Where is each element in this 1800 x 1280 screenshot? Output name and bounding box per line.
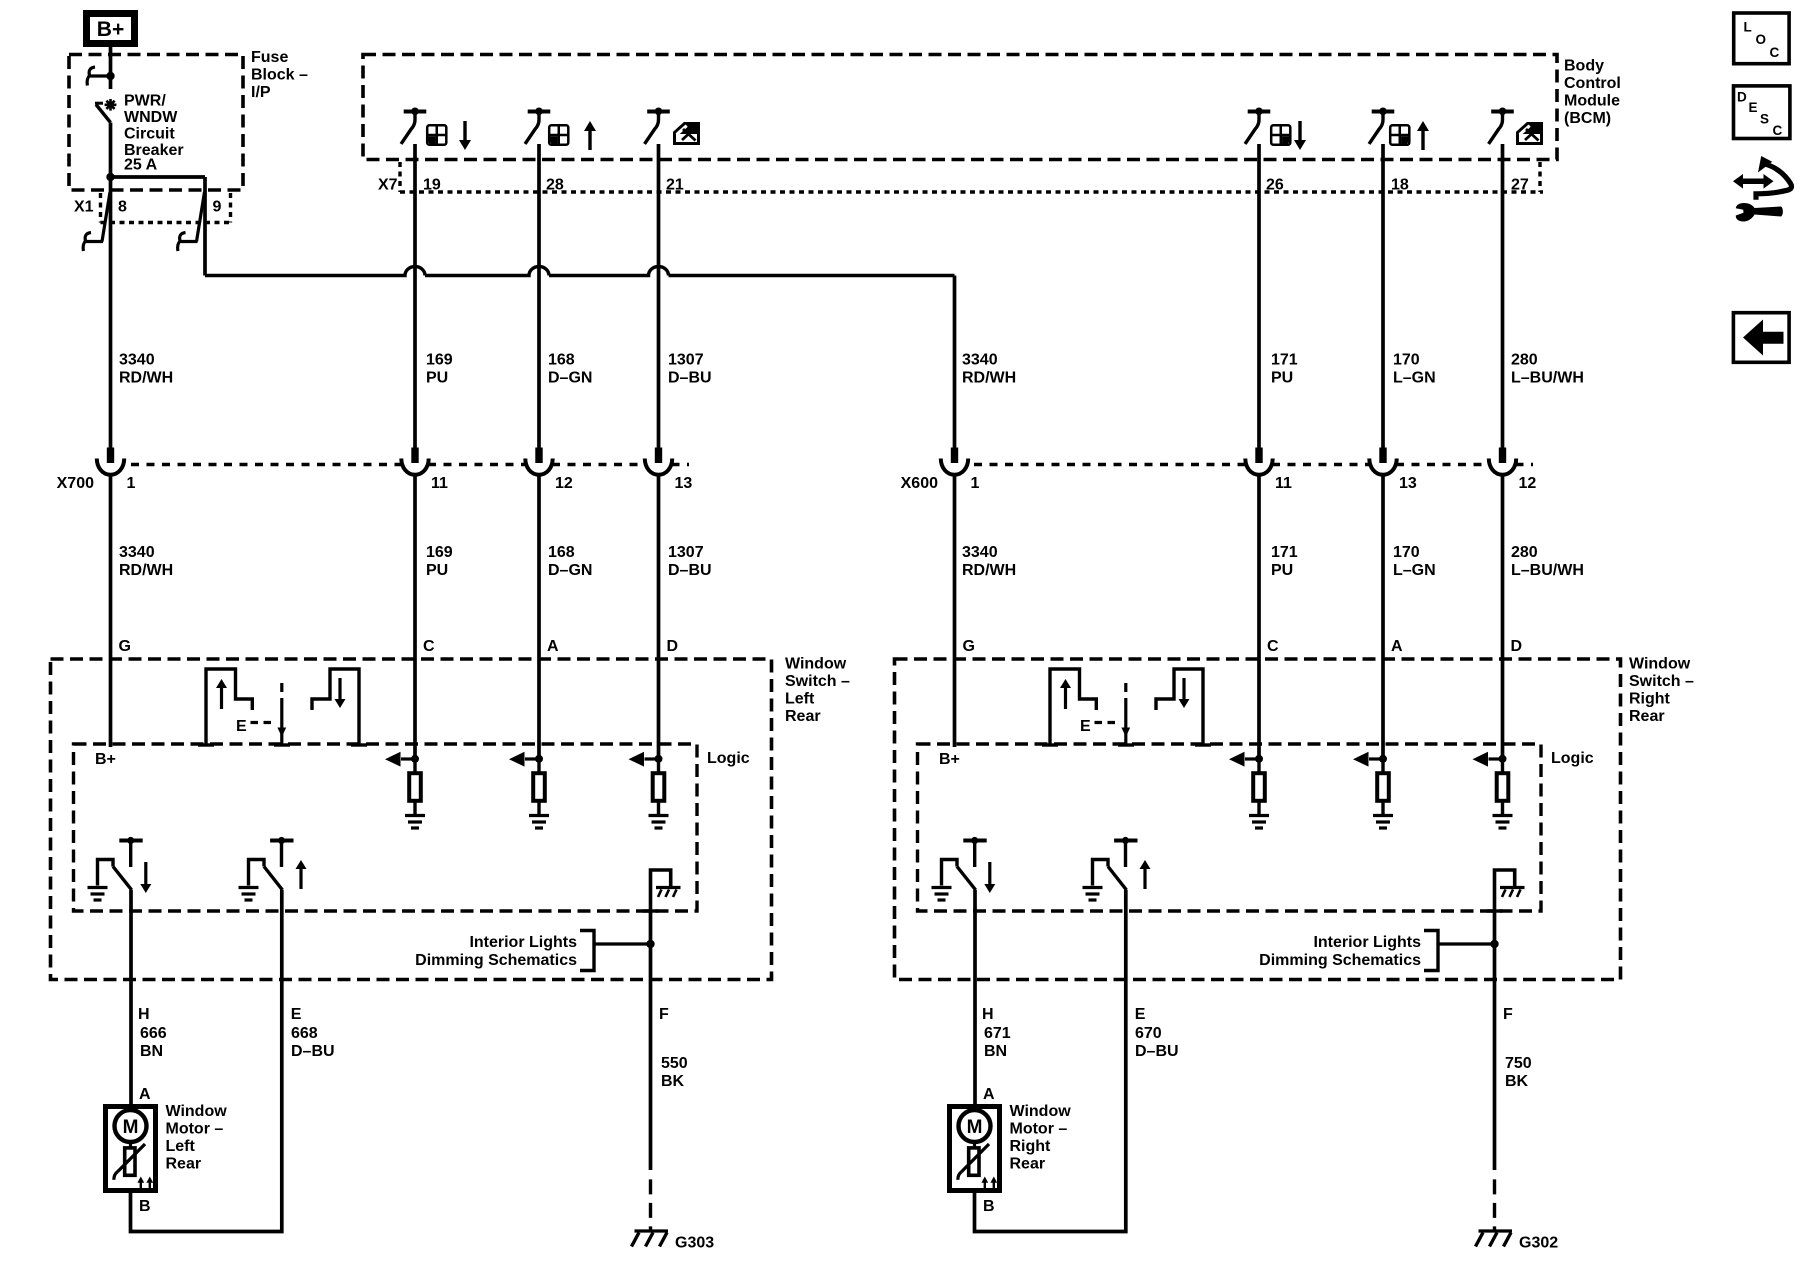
label terminal B bbox=[139, 1198, 151, 1215]
svg-text:BN: BN bbox=[140, 1043, 163, 1060]
wire BCM pin 26 bbox=[1257, 144, 1261, 448]
wire label 170 L–GN upper bbox=[1393, 352, 1436, 387]
power feed B+ box bbox=[87, 14, 135, 44]
ground G303 bbox=[632, 1231, 715, 1252]
svg-text:Rear: Rear bbox=[166, 1156, 202, 1173]
svg-text:BK: BK bbox=[661, 1073, 685, 1090]
svg-text:D: D bbox=[1737, 90, 1747, 105]
svg-text:Interior Lights: Interior Lights bbox=[1313, 934, 1421, 951]
logic input resistor and ground at terminal D bbox=[629, 752, 669, 828]
circuit breaker PWR/WNDW 25A bbox=[95, 99, 116, 123]
logic input resistor and ground at terminal A bbox=[509, 752, 549, 828]
label pin 1 bbox=[971, 475, 980, 492]
wire label 1393 170 lower bbox=[1393, 544, 1436, 579]
svg-text:X1: X1 bbox=[74, 199, 94, 216]
connector X600 row bbox=[974, 463, 1533, 467]
connector X600 pin 1 bbox=[941, 448, 968, 475]
wire label 3340 RD/WH upper bbox=[119, 352, 173, 387]
svg-text:Window: Window bbox=[785, 656, 847, 673]
connector X700 pin 12 bbox=[525, 448, 552, 475]
wire label 1271 171 lower bbox=[1271, 544, 1298, 579]
svg-text:I/P: I/P bbox=[251, 84, 271, 101]
wire 668 1307 to switch bbox=[657, 475, 661, 760]
logic input resistor and ground at terminal C bbox=[1229, 752, 1269, 828]
label pin 9 bbox=[213, 199, 222, 216]
wire BCM pin 28 bbox=[537, 144, 541, 448]
window switch Right rear dashed box bbox=[895, 659, 1621, 980]
wire breaker to X1 pin 8 bbox=[109, 123, 113, 448]
svg-text:L–BU/WH: L–BU/WH bbox=[1511, 562, 1584, 579]
svg-text:12: 12 bbox=[1519, 475, 1537, 492]
label terminal A bbox=[547, 638, 559, 655]
svg-text:Motor –: Motor – bbox=[166, 1121, 224, 1138]
svg-text:A: A bbox=[1391, 638, 1403, 655]
wire switch H output bbox=[973, 890, 977, 1104]
wire BCM pin 19 bbox=[413, 144, 417, 448]
schematic navigation icon bbox=[1733, 156, 1791, 222]
svg-text:666: 666 bbox=[140, 1025, 167, 1042]
label pin 27 bbox=[1511, 177, 1529, 194]
svg-text:B: B bbox=[983, 1198, 995, 1215]
svg-text:168: 168 bbox=[548, 352, 575, 369]
svg-text:12: 12 bbox=[555, 475, 573, 492]
svg-text:PU: PU bbox=[426, 370, 448, 387]
svg-text:280: 280 bbox=[1511, 544, 1538, 561]
BCM driver switch window up output right rear bbox=[1370, 108, 1429, 151]
label pin 12 bbox=[555, 475, 573, 492]
label terminal A bbox=[983, 1086, 995, 1103]
window down switch contact bbox=[932, 837, 996, 900]
junction node breaker output bbox=[106, 173, 114, 181]
BCM driver switch express window output right rear bbox=[1490, 108, 1542, 144]
logic input resistor and ground at terminal A bbox=[1353, 752, 1393, 828]
svg-text:X700: X700 bbox=[57, 475, 94, 492]
svg-text:171: 171 bbox=[1271, 352, 1298, 369]
svg-text:Body: Body bbox=[1564, 58, 1604, 75]
wire label 119 3340 lower bbox=[119, 544, 173, 579]
LOC navigation box bbox=[1734, 13, 1789, 64]
svg-text:Rear: Rear bbox=[1010, 1156, 1046, 1173]
connector X700 row bbox=[131, 463, 689, 467]
junction node dimming feed bbox=[646, 940, 654, 948]
svg-text:Module: Module bbox=[1564, 93, 1620, 110]
label pin 18 bbox=[1391, 177, 1409, 194]
svg-text:Dimming Schematics: Dimming Schematics bbox=[415, 952, 577, 969]
label Logic bbox=[1551, 750, 1594, 767]
label pin 13 bbox=[675, 475, 693, 492]
rocker actuator detent symbol bbox=[1042, 669, 1211, 745]
svg-text:L–GN: L–GN bbox=[1393, 562, 1436, 579]
wire label 670 D–BU bbox=[1135, 1025, 1179, 1060]
svg-text:D: D bbox=[1511, 638, 1523, 655]
svg-text:A: A bbox=[547, 638, 559, 655]
svg-text:671: 671 bbox=[984, 1025, 1011, 1042]
label Window Switch - Left Rear bbox=[785, 656, 850, 726]
rocker actuator detent symbol bbox=[198, 669, 367, 745]
wire label 668 1307 lower bbox=[668, 544, 712, 579]
label X600 bbox=[901, 475, 938, 492]
connector X600 pin 11 bbox=[1245, 448, 1272, 475]
svg-text:Logic: Logic bbox=[707, 750, 750, 767]
svg-text:Switch –: Switch – bbox=[785, 673, 850, 690]
label terminal C bbox=[423, 638, 435, 655]
svg-text:Window: Window bbox=[166, 1103, 228, 1120]
svg-text:(BCM): (BCM) bbox=[1564, 110, 1611, 127]
svg-text:M: M bbox=[967, 1117, 983, 1138]
svg-text:A: A bbox=[983, 1086, 995, 1103]
wire 3340 RD/WH feed run to X600 bbox=[205, 267, 955, 448]
svg-text:RD/WH: RD/WH bbox=[119, 370, 173, 387]
svg-text:8: 8 bbox=[118, 199, 127, 216]
svg-text:WNDW: WNDW bbox=[124, 109, 178, 126]
svg-text:3340: 3340 bbox=[119, 544, 155, 561]
svg-text:Interior Lights: Interior Lights bbox=[469, 934, 577, 951]
logic input resistor and ground at terminal D bbox=[1473, 752, 1513, 828]
svg-text:Logic: Logic bbox=[1551, 750, 1594, 767]
svg-text:E: E bbox=[1135, 1006, 1146, 1023]
wire 426 169 to switch bbox=[413, 475, 417, 760]
wire BCM pin 18 bbox=[1381, 144, 1385, 448]
label terminal D bbox=[1511, 638, 1523, 655]
wire 1393 170 to switch bbox=[1381, 475, 1385, 760]
svg-text:25 A: 25 A bbox=[124, 157, 158, 174]
connector X700 pin 11 bbox=[401, 448, 428, 475]
junction node dimming feed bbox=[1490, 940, 1498, 948]
logic input resistor and ground at terminal C bbox=[385, 752, 425, 828]
label X1 bbox=[74, 199, 94, 216]
svg-text:1: 1 bbox=[971, 475, 980, 492]
svg-text:171: 171 bbox=[1271, 544, 1298, 561]
svg-text:S: S bbox=[1760, 112, 1769, 127]
svg-text:L–GN: L–GN bbox=[1393, 370, 1436, 387]
label pin 13 bbox=[1399, 475, 1417, 492]
wire 1271 171 to switch bbox=[1257, 475, 1261, 760]
svg-text:11: 11 bbox=[1275, 475, 1292, 492]
wire label 668 D–BU bbox=[291, 1025, 335, 1060]
svg-text:170: 170 bbox=[1393, 352, 1420, 369]
label pin 12 bbox=[1519, 475, 1537, 492]
svg-text:169: 169 bbox=[426, 352, 453, 369]
svg-text:3340: 3340 bbox=[119, 352, 155, 369]
wire label 426 169 lower bbox=[426, 544, 453, 579]
svg-text:Block –: Block – bbox=[251, 67, 308, 84]
wire label 666 BN bbox=[140, 1025, 167, 1060]
svg-text:Window: Window bbox=[1629, 656, 1691, 673]
svg-text:B+: B+ bbox=[939, 751, 960, 768]
svg-text:PU: PU bbox=[1271, 562, 1293, 579]
svg-text:F: F bbox=[1503, 1006, 1513, 1023]
svg-text:1: 1 bbox=[127, 475, 136, 492]
svg-text:H: H bbox=[138, 1006, 150, 1023]
label Window Switch - Right Rear bbox=[1629, 656, 1694, 726]
label Logic bbox=[707, 750, 750, 767]
svg-text:D–GN: D–GN bbox=[548, 370, 592, 387]
svg-text:750: 750 bbox=[1505, 1055, 1532, 1072]
wire B+ to circuit breaker bbox=[109, 47, 113, 90]
svg-text:1307: 1307 bbox=[668, 544, 704, 561]
label terminal E bbox=[291, 1006, 302, 1023]
wire label 962 3340 lower bbox=[962, 544, 1016, 579]
svg-text:168: 168 bbox=[548, 544, 575, 561]
label Interior Lights Dimming Schematics bbox=[1259, 934, 1421, 969]
wire label 3340 RD/WH upper bbox=[962, 352, 1016, 387]
svg-text:Right: Right bbox=[1010, 1138, 1052, 1155]
label Window Motor - Left Rear bbox=[166, 1103, 228, 1173]
label pin 19 bbox=[423, 177, 441, 194]
illumination dimming element bbox=[643, 870, 681, 911]
svg-text:L: L bbox=[1744, 20, 1752, 35]
svg-text:BN: BN bbox=[984, 1043, 1007, 1060]
svg-text:H: H bbox=[982, 1006, 994, 1023]
svg-text:BK: BK bbox=[1505, 1073, 1529, 1090]
label pin 26 bbox=[1266, 177, 1284, 194]
svg-text:3340: 3340 bbox=[962, 352, 998, 369]
svg-text:RD/WH: RD/WH bbox=[119, 562, 173, 579]
svg-text:X7: X7 bbox=[378, 177, 398, 194]
window up switch contact bbox=[1083, 837, 1151, 900]
label X7 bbox=[378, 177, 398, 194]
label terminal B bbox=[983, 1198, 995, 1215]
connector X700 pin 13 bbox=[645, 448, 672, 475]
dimming schematics bracket bbox=[580, 931, 651, 971]
svg-text:Rear: Rear bbox=[1629, 708, 1665, 725]
svg-text:550: 550 bbox=[661, 1055, 688, 1072]
label pin 28 bbox=[546, 177, 564, 194]
label B+ bbox=[939, 751, 960, 768]
wire BCM pin 27 bbox=[1501, 144, 1505, 448]
svg-text:D: D bbox=[667, 638, 679, 655]
svg-text:RD/WH: RD/WH bbox=[962, 370, 1016, 387]
label terminal F bbox=[1503, 1006, 1513, 1023]
connector X600 pin 12 bbox=[1489, 448, 1516, 475]
svg-text:9: 9 bbox=[213, 199, 222, 216]
back arrow navigation box bbox=[1733, 313, 1789, 363]
DESC navigation box bbox=[1734, 86, 1790, 139]
svg-text:Circuit: Circuit bbox=[124, 126, 175, 143]
label pin 8 bbox=[118, 199, 127, 216]
svg-text:B+: B+ bbox=[95, 751, 116, 768]
svg-text:A: A bbox=[139, 1086, 151, 1103]
label terminal A bbox=[1391, 638, 1403, 655]
label Window Motor - Right Rear bbox=[1010, 1103, 1072, 1173]
label terminal G bbox=[963, 638, 975, 655]
wire label 548 168 lower bbox=[548, 544, 592, 579]
wire switch E output bbox=[131, 890, 282, 1232]
wire switch F output bbox=[1493, 911, 1497, 1230]
svg-text:13: 13 bbox=[675, 475, 693, 492]
label pin 11 bbox=[431, 475, 448, 492]
svg-text:D–BU: D–BU bbox=[668, 562, 712, 579]
label pin 1 bbox=[127, 475, 136, 492]
wire label 750 BK bbox=[1505, 1055, 1532, 1090]
svg-text:11: 11 bbox=[431, 475, 448, 492]
label Fuse Block - I/P bbox=[251, 49, 308, 101]
wire 119 3340 to switch bbox=[109, 475, 113, 748]
svg-text:X600: X600 bbox=[901, 475, 938, 492]
svg-text:Window: Window bbox=[1010, 1103, 1072, 1120]
label terminal G bbox=[119, 638, 131, 655]
svg-text:C: C bbox=[423, 638, 435, 655]
svg-text:D–BU: D–BU bbox=[1135, 1043, 1179, 1060]
svg-text:Left: Left bbox=[785, 691, 815, 708]
connector X1 strip bbox=[101, 193, 232, 223]
window motor left rear bbox=[106, 1107, 156, 1191]
window down switch contact bbox=[88, 837, 152, 900]
svg-text:668: 668 bbox=[291, 1025, 318, 1042]
svg-text:C: C bbox=[1773, 123, 1783, 138]
label terminal H bbox=[138, 1006, 150, 1023]
wire label 550 BK bbox=[661, 1055, 688, 1090]
label B+ bbox=[95, 751, 116, 768]
svg-text:G302: G302 bbox=[1519, 1235, 1558, 1252]
svg-text:Switch –: Switch – bbox=[1629, 673, 1694, 690]
illumination dimming element bbox=[1487, 870, 1525, 911]
wire switch F output bbox=[649, 911, 653, 1230]
wire 548 168 to switch bbox=[537, 475, 541, 760]
svg-text:D–BU: D–BU bbox=[291, 1043, 335, 1060]
label Interior Lights Dimming Schematics bbox=[415, 934, 577, 969]
svg-text:C: C bbox=[1267, 638, 1279, 655]
svg-text:C: C bbox=[1770, 45, 1780, 60]
svg-text:280: 280 bbox=[1511, 352, 1538, 369]
label terminal D bbox=[667, 638, 679, 655]
label terminal F bbox=[659, 1006, 669, 1023]
svg-text:B+: B+ bbox=[97, 18, 124, 41]
svg-text:Control: Control bbox=[1564, 75, 1621, 92]
svg-text:Rear: Rear bbox=[785, 708, 821, 725]
wire label 169 PU upper bbox=[426, 352, 453, 387]
svg-text:Fuse: Fuse bbox=[251, 49, 288, 66]
BCM driver switch window down output left rear bbox=[402, 108, 471, 151]
svg-text:L–BU/WH: L–BU/WH bbox=[1511, 370, 1584, 387]
connector terminal X1 pin 9 bbox=[178, 192, 205, 251]
logic dashed box bbox=[918, 744, 1542, 911]
svg-text:670: 670 bbox=[1135, 1025, 1162, 1042]
BCM driver switch window down output right rear bbox=[1246, 108, 1306, 151]
svg-text:D–GN: D–GN bbox=[548, 562, 592, 579]
svg-text:PU: PU bbox=[426, 562, 448, 579]
connector X7 strip bbox=[400, 162, 1543, 192]
label terminal E bbox=[1135, 1006, 1146, 1023]
wire label 671 BN bbox=[984, 1025, 1011, 1060]
wire 1511 280 to switch bbox=[1501, 475, 1505, 760]
label PWR/WNDW Circuit Breaker 25 A bbox=[124, 93, 184, 174]
wire label 171 PU upper bbox=[1271, 352, 1298, 387]
window motor right rear bbox=[950, 1107, 1000, 1191]
wire label 168 D–GN upper bbox=[548, 352, 592, 387]
wire switch H output bbox=[129, 890, 133, 1104]
svg-text:Right: Right bbox=[1629, 691, 1671, 708]
svg-text:O: O bbox=[1756, 32, 1767, 47]
ground G302 bbox=[1476, 1231, 1559, 1252]
svg-text:G303: G303 bbox=[675, 1235, 714, 1252]
svg-text:E: E bbox=[291, 1006, 302, 1023]
label pin 21 bbox=[666, 177, 684, 194]
window up switch contact bbox=[239, 837, 307, 900]
wire BCM pin 21 bbox=[657, 144, 661, 448]
svg-text:PU: PU bbox=[1271, 370, 1293, 387]
fuse block I/P dashed box bbox=[69, 55, 243, 191]
label Body Control Module (BCM) bbox=[1564, 58, 1621, 128]
label terminal C bbox=[1267, 638, 1279, 655]
svg-text:RD/WH: RD/WH bbox=[962, 562, 1016, 579]
wire 962 3340 to switch bbox=[953, 475, 957, 748]
svg-text:13: 13 bbox=[1399, 475, 1417, 492]
svg-text:E: E bbox=[1080, 718, 1091, 735]
svg-text:D–BU: D–BU bbox=[668, 370, 712, 387]
svg-text:3340: 3340 bbox=[962, 544, 998, 561]
feed junction node bbox=[87, 67, 115, 86]
svg-text:169: 169 bbox=[426, 544, 453, 561]
wire label 280 L–BU/WH upper bbox=[1511, 352, 1584, 387]
svg-text:B: B bbox=[139, 1198, 151, 1215]
svg-text:PWR/: PWR/ bbox=[124, 93, 166, 110]
window switch Left rear dashed box bbox=[51, 659, 772, 980]
svg-text:E: E bbox=[1749, 100, 1758, 115]
svg-text:E: E bbox=[236, 718, 247, 735]
svg-text:Motor –: Motor – bbox=[1010, 1121, 1068, 1138]
svg-text:Dimming Schematics: Dimming Schematics bbox=[1259, 952, 1421, 969]
connector terminal X1 pin 8 bbox=[83, 192, 110, 251]
svg-text:M: M bbox=[123, 1117, 139, 1138]
logic dashed box bbox=[74, 744, 698, 911]
label X700 bbox=[57, 475, 94, 492]
wire switch E output bbox=[975, 890, 1126, 1232]
BCM driver switch window up output left rear bbox=[526, 108, 596, 151]
svg-text:G: G bbox=[963, 638, 975, 655]
BCM driver switch express window output left rear bbox=[646, 108, 699, 144]
svg-text:G: G bbox=[119, 638, 131, 655]
connector X700 pin 1 bbox=[97, 448, 124, 475]
svg-text:F: F bbox=[659, 1006, 669, 1023]
svg-text:Left: Left bbox=[166, 1138, 196, 1155]
label terminal A bbox=[139, 1086, 151, 1103]
wire label 1307 D–BU upper bbox=[668, 352, 712, 387]
wire label 1511 280 lower bbox=[1511, 544, 1584, 579]
svg-text:170: 170 bbox=[1393, 544, 1420, 561]
svg-text:1307: 1307 bbox=[668, 352, 704, 369]
wire junction to X1 pin 9 bbox=[111, 177, 206, 276]
dimming schematics bracket bbox=[1424, 931, 1495, 971]
label terminal H bbox=[982, 1006, 994, 1023]
label pin 11 bbox=[1275, 475, 1292, 492]
connector X600 pin 13 bbox=[1369, 448, 1396, 475]
body control module BCM dashed box bbox=[363, 55, 1557, 160]
